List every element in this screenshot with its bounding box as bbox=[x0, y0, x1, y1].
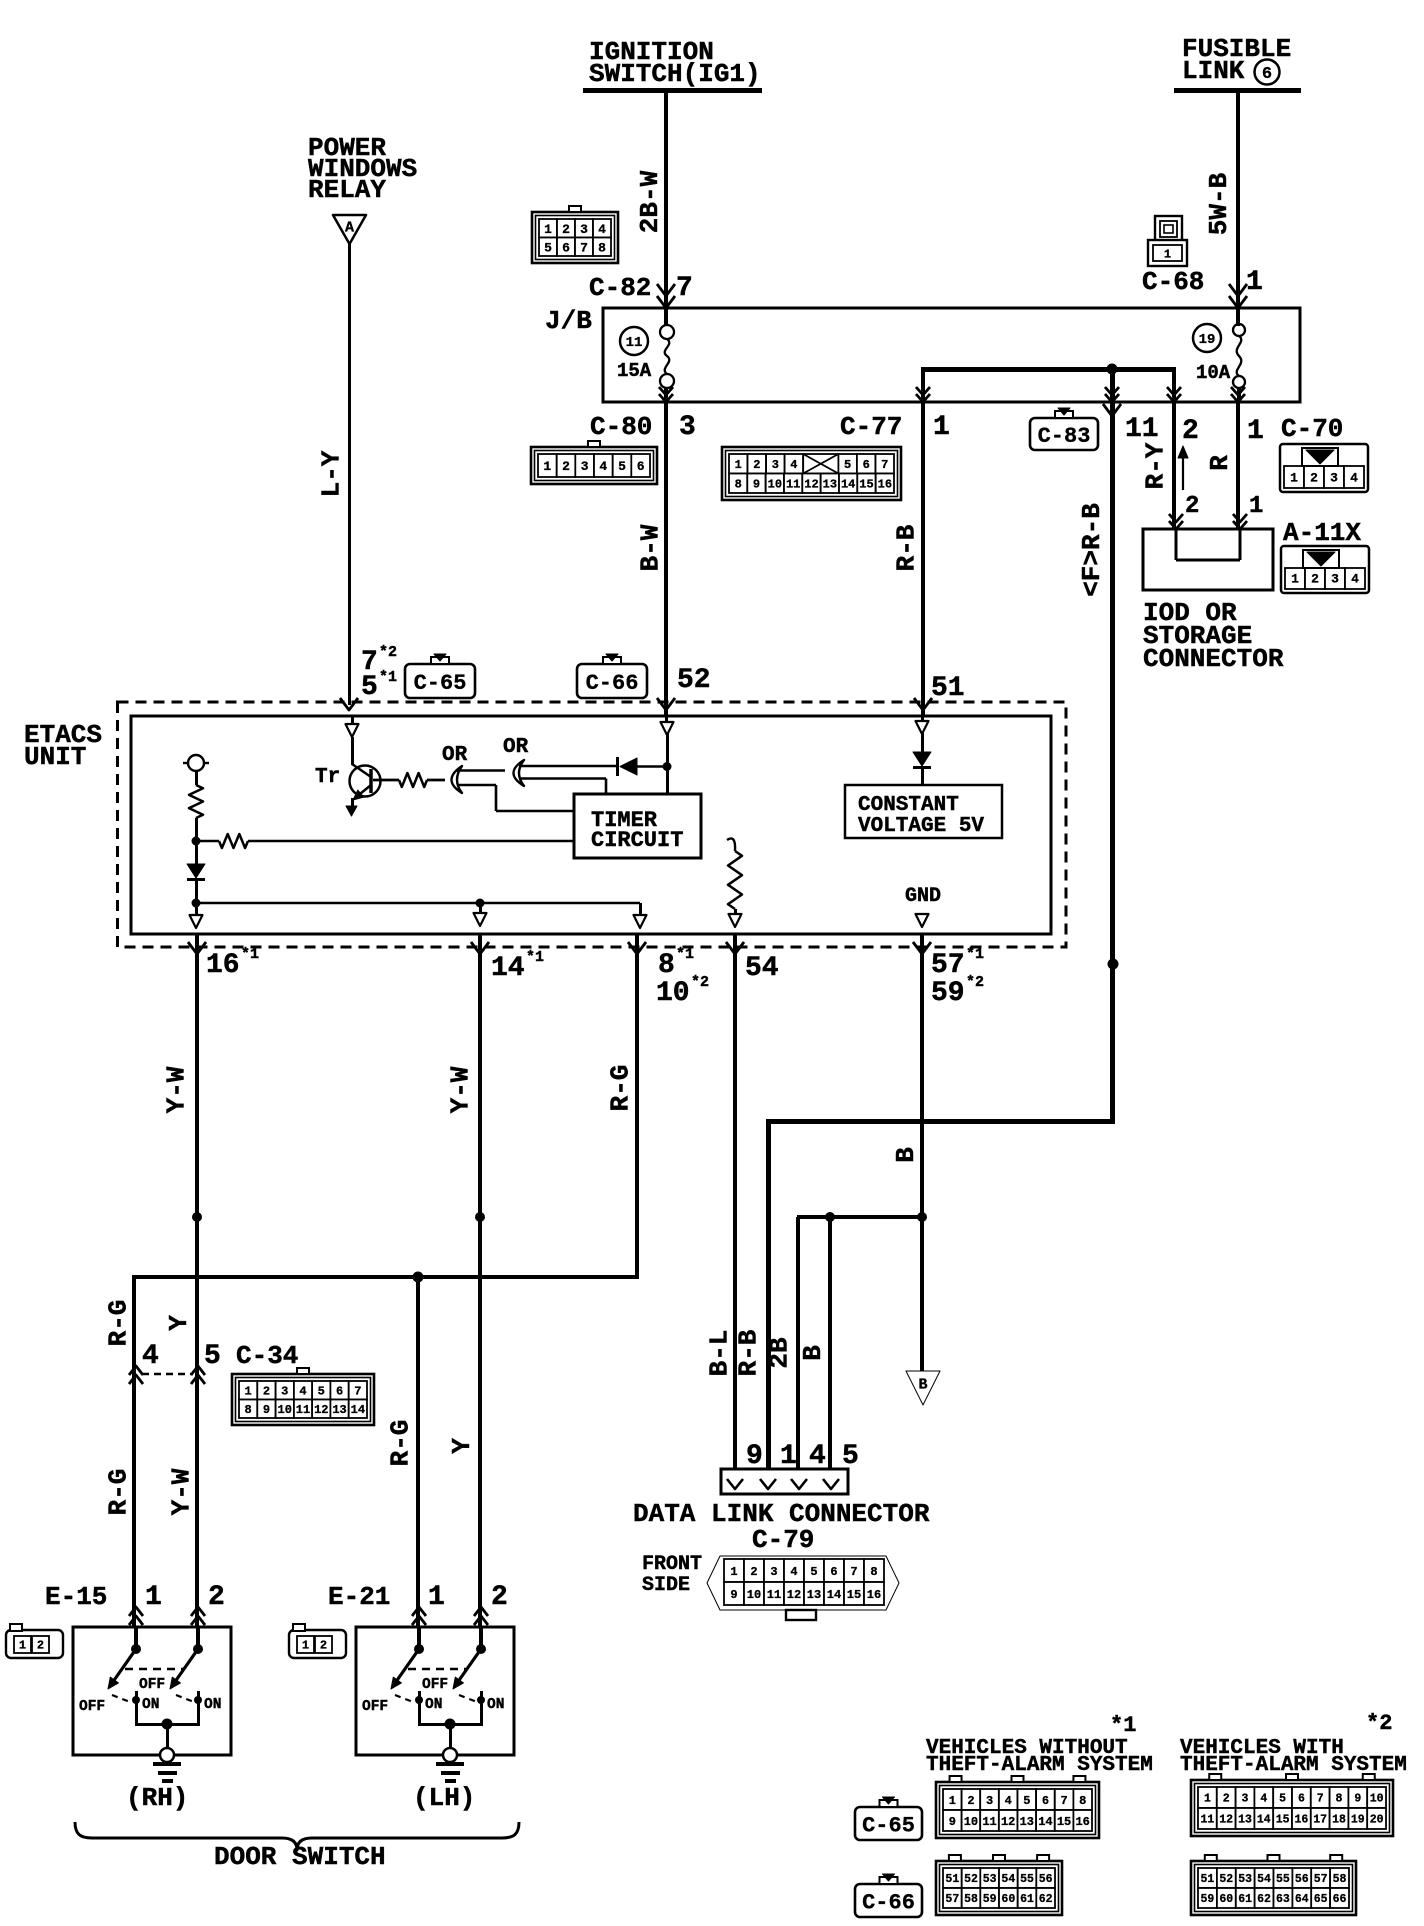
svg-text:7: 7 bbox=[850, 1565, 857, 1579]
svg-text:5: 5 bbox=[1279, 1793, 1286, 1806]
svg-text:16: 16 bbox=[1075, 1815, 1089, 1829]
svg-text:58: 58 bbox=[964, 1893, 978, 1906]
svg-text:2: 2 bbox=[1311, 572, 1319, 587]
svg-text:12: 12 bbox=[787, 1588, 801, 1602]
svg-text:2: 2 bbox=[1310, 471, 1318, 486]
svg-text:9: 9 bbox=[263, 1403, 270, 1417]
svg-text:52: 52 bbox=[1219, 1873, 1233, 1886]
svg-text:13: 13 bbox=[807, 1588, 821, 1602]
svg-text:9: 9 bbox=[1354, 1793, 1361, 1806]
svg-text:13: 13 bbox=[1020, 1815, 1034, 1829]
svg-text:12: 12 bbox=[1219, 1814, 1233, 1827]
svg-text:1: 1 bbox=[735, 458, 742, 472]
svg-text:51: 51 bbox=[945, 1873, 959, 1886]
svg-text:14: 14 bbox=[351, 1403, 365, 1417]
svg-text:6: 6 bbox=[830, 1565, 837, 1579]
svg-text:9: 9 bbox=[730, 1588, 737, 1602]
svg-text:58: 58 bbox=[1333, 1873, 1347, 1886]
svg-text:3: 3 bbox=[1242, 1793, 1249, 1806]
svg-text:3: 3 bbox=[986, 1794, 993, 1808]
svg-text:54: 54 bbox=[1001, 1873, 1015, 1886]
svg-text:16: 16 bbox=[878, 478, 892, 492]
svg-text:2: 2 bbox=[753, 458, 760, 472]
svg-text:4: 4 bbox=[1260, 1793, 1267, 1806]
svg-text:15: 15 bbox=[847, 1588, 861, 1602]
svg-text:14: 14 bbox=[827, 1588, 841, 1602]
svg-text:66: 66 bbox=[1333, 1893, 1347, 1906]
svg-text:12: 12 bbox=[804, 478, 818, 492]
svg-text:2: 2 bbox=[967, 1794, 974, 1808]
svg-text:6: 6 bbox=[562, 240, 570, 255]
svg-text:9: 9 bbox=[753, 478, 760, 492]
svg-text:1: 1 bbox=[1291, 572, 1299, 587]
svg-text:4: 4 bbox=[790, 1565, 797, 1579]
svg-text:10: 10 bbox=[278, 1403, 292, 1417]
svg-text:60: 60 bbox=[1219, 1893, 1233, 1906]
svg-text:6: 6 bbox=[1042, 1794, 1049, 1808]
svg-text:17: 17 bbox=[1313, 1814, 1327, 1827]
svg-text:3: 3 bbox=[281, 1385, 288, 1399]
svg-text:62: 62 bbox=[1257, 1893, 1271, 1906]
svg-text:9: 9 bbox=[949, 1815, 956, 1829]
svg-text:59: 59 bbox=[983, 1893, 997, 1906]
svg-text:3: 3 bbox=[581, 459, 589, 474]
svg-text:57: 57 bbox=[1314, 1873, 1328, 1886]
svg-text:15: 15 bbox=[1057, 1815, 1071, 1829]
svg-text:4: 4 bbox=[1005, 1794, 1012, 1808]
svg-text:C-66: C-66 bbox=[586, 671, 639, 696]
svg-text:C-83: C-83 bbox=[1038, 424, 1091, 449]
svg-text:1: 1 bbox=[302, 1638, 309, 1652]
svg-text:1: 1 bbox=[949, 1794, 956, 1808]
svg-text:11: 11 bbox=[296, 1403, 310, 1417]
svg-text:56: 56 bbox=[1039, 1873, 1053, 1886]
svg-text:53: 53 bbox=[983, 1873, 997, 1886]
svg-text:5: 5 bbox=[810, 1565, 817, 1579]
svg-text:6: 6 bbox=[336, 1385, 343, 1399]
svg-text:10: 10 bbox=[964, 1815, 978, 1829]
svg-text:1: 1 bbox=[543, 459, 551, 474]
svg-text:16: 16 bbox=[1294, 1814, 1308, 1827]
svg-text:4: 4 bbox=[1350, 471, 1358, 486]
svg-text:20: 20 bbox=[1370, 1814, 1384, 1827]
svg-text:6: 6 bbox=[863, 458, 870, 472]
svg-text:18: 18 bbox=[1332, 1814, 1346, 1827]
svg-text:4: 4 bbox=[790, 458, 797, 472]
svg-text:57: 57 bbox=[945, 1893, 959, 1906]
svg-text:16: 16 bbox=[867, 1588, 881, 1602]
svg-text:2: 2 bbox=[1223, 1793, 1230, 1806]
svg-text:6: 6 bbox=[637, 459, 645, 474]
svg-text:12: 12 bbox=[314, 1403, 328, 1417]
svg-text:8: 8 bbox=[735, 478, 742, 492]
svg-text:3: 3 bbox=[772, 458, 779, 472]
svg-text:8: 8 bbox=[598, 240, 606, 255]
svg-text:7: 7 bbox=[1060, 1794, 1067, 1808]
svg-text:1: 1 bbox=[1290, 471, 1298, 486]
svg-text:3: 3 bbox=[1330, 471, 1338, 486]
svg-text:7: 7 bbox=[1317, 1793, 1324, 1806]
svg-text:12: 12 bbox=[1001, 1815, 1015, 1829]
svg-text:13: 13 bbox=[332, 1403, 346, 1417]
svg-text:1: 1 bbox=[1164, 247, 1171, 261]
svg-text:65: 65 bbox=[1314, 1893, 1328, 1906]
svg-text:19: 19 bbox=[1199, 332, 1216, 348]
svg-text:4: 4 bbox=[599, 459, 607, 474]
svg-text:5: 5 bbox=[618, 459, 626, 474]
svg-text:7: 7 bbox=[354, 1385, 361, 1399]
svg-text:60: 60 bbox=[1001, 1893, 1015, 1906]
svg-text:6: 6 bbox=[1262, 65, 1272, 84]
svg-text:8: 8 bbox=[1336, 1793, 1343, 1806]
svg-text:4: 4 bbox=[299, 1385, 306, 1399]
svg-text:1: 1 bbox=[19, 1638, 26, 1652]
svg-text:C-65: C-65 bbox=[862, 1813, 915, 1838]
svg-text:64: 64 bbox=[1295, 1893, 1309, 1906]
svg-text:11: 11 bbox=[767, 1588, 781, 1602]
svg-text:10: 10 bbox=[768, 478, 782, 492]
svg-text:2: 2 bbox=[37, 1638, 44, 1652]
svg-text:C-65: C-65 bbox=[414, 671, 467, 696]
svg-text:7: 7 bbox=[881, 458, 888, 472]
svg-text:2: 2 bbox=[320, 1638, 327, 1652]
svg-text:4: 4 bbox=[1351, 572, 1359, 587]
svg-text:2: 2 bbox=[562, 459, 570, 474]
svg-text:6: 6 bbox=[1298, 1793, 1305, 1806]
svg-text:1: 1 bbox=[730, 1565, 737, 1579]
svg-text:13: 13 bbox=[823, 478, 837, 492]
svg-text:1: 1 bbox=[544, 222, 552, 237]
svg-text:5: 5 bbox=[544, 240, 552, 255]
svg-text:15: 15 bbox=[859, 478, 873, 492]
svg-text:10: 10 bbox=[747, 1588, 761, 1602]
svg-text:59: 59 bbox=[1201, 1893, 1215, 1906]
svg-text:A: A bbox=[345, 219, 354, 236]
svg-text:B: B bbox=[918, 1376, 927, 1393]
svg-text:5: 5 bbox=[844, 458, 851, 472]
svg-text:1: 1 bbox=[245, 1385, 252, 1399]
svg-text:14: 14 bbox=[841, 478, 855, 492]
svg-text:11: 11 bbox=[1200, 1814, 1214, 1827]
svg-text:19: 19 bbox=[1351, 1814, 1365, 1827]
svg-text:2: 2 bbox=[562, 222, 570, 237]
svg-text:51: 51 bbox=[1201, 1873, 1215, 1886]
svg-text:4: 4 bbox=[598, 222, 606, 237]
svg-text:55: 55 bbox=[1276, 1873, 1290, 1886]
svg-text:7: 7 bbox=[580, 240, 588, 255]
svg-text:11: 11 bbox=[982, 1815, 996, 1829]
svg-text:14: 14 bbox=[1038, 1815, 1052, 1829]
svg-text:3: 3 bbox=[1331, 572, 1339, 587]
svg-text:11: 11 bbox=[786, 478, 800, 492]
svg-text:8: 8 bbox=[870, 1565, 877, 1579]
svg-text:53: 53 bbox=[1238, 1873, 1252, 1886]
svg-text:15: 15 bbox=[1276, 1814, 1290, 1827]
svg-text:52: 52 bbox=[964, 1873, 978, 1886]
svg-text:2: 2 bbox=[263, 1385, 270, 1399]
svg-text:55: 55 bbox=[1020, 1873, 1034, 1886]
svg-text:10: 10 bbox=[1370, 1793, 1384, 1806]
svg-text:14: 14 bbox=[1257, 1814, 1271, 1827]
svg-text:2: 2 bbox=[750, 1565, 757, 1579]
svg-text:62: 62 bbox=[1039, 1893, 1053, 1906]
svg-text:56: 56 bbox=[1295, 1873, 1309, 1886]
svg-text:54: 54 bbox=[1257, 1873, 1271, 1886]
svg-text:C-66: C-66 bbox=[862, 1890, 915, 1915]
svg-text:8: 8 bbox=[245, 1403, 252, 1417]
svg-text:61: 61 bbox=[1020, 1893, 1034, 1906]
svg-text:13: 13 bbox=[1238, 1814, 1252, 1827]
svg-text:5: 5 bbox=[318, 1385, 325, 1399]
svg-text:1: 1 bbox=[1204, 1793, 1211, 1806]
svg-text:5: 5 bbox=[1023, 1794, 1030, 1808]
svg-text:8: 8 bbox=[1079, 1794, 1086, 1808]
svg-text:3: 3 bbox=[580, 222, 588, 237]
svg-text:3: 3 bbox=[770, 1565, 777, 1579]
svg-text:61: 61 bbox=[1238, 1893, 1252, 1906]
svg-text:63: 63 bbox=[1276, 1893, 1290, 1906]
svg-text:11: 11 bbox=[626, 335, 643, 351]
